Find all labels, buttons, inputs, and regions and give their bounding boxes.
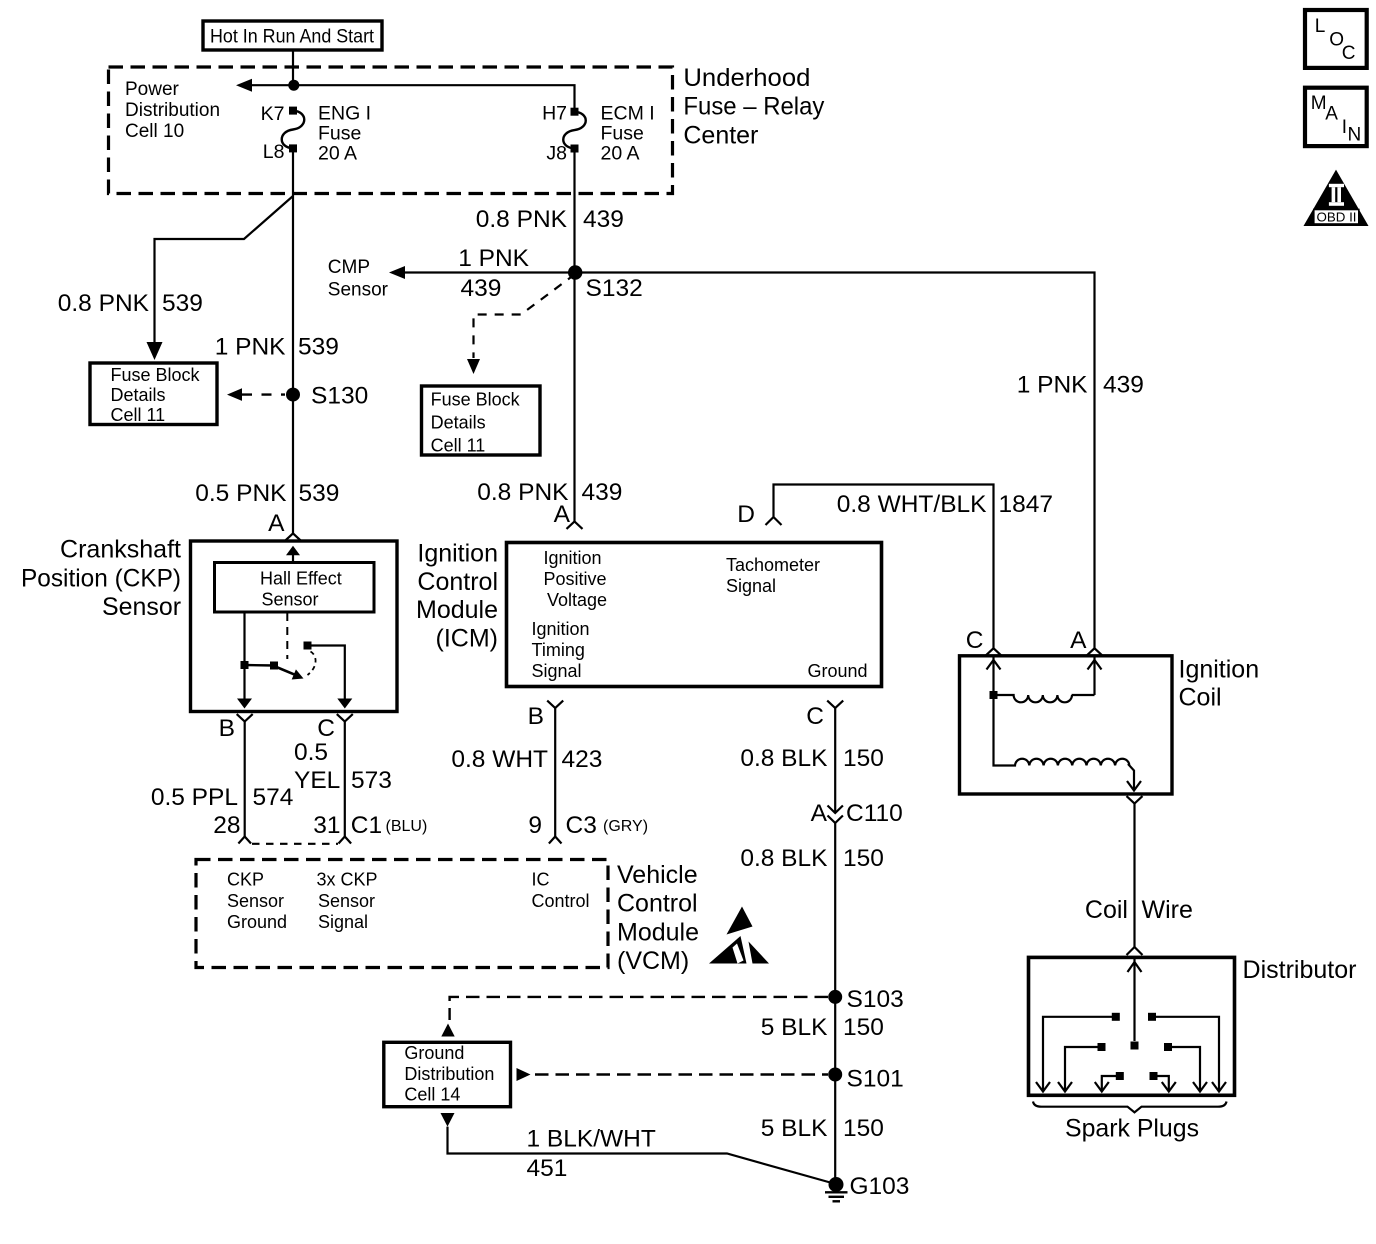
svg-text:574: 574 (253, 784, 294, 811)
wire CKP B to VCM pin 28 (ckt 574) (244, 722, 246, 837)
svg-text:Position (CKP): Position (CKP) (21, 564, 181, 592)
svg-text:0.8 PNK: 0.8 PNK (476, 206, 568, 233)
svg-text:L8: L8 (263, 141, 285, 163)
svg-text:539: 539 (299, 480, 340, 507)
svg-text:(GRY): (GRY) (603, 818, 648, 835)
svg-text:Distributor: Distributor (1243, 956, 1357, 984)
svg-text:573: 573 (351, 767, 392, 794)
label: Crankshaft Position (CKP) Sensor (21, 536, 181, 622)
svg-text:Spark Plugs: Spark Plugs (1065, 1115, 1199, 1143)
svg-text:1 PNK: 1 PNK (1017, 372, 1088, 399)
wire: ECM I fuse down to ICM pin A (ckt 439) (573, 149, 575, 522)
wire label 1 PNK 539 (215, 334, 339, 361)
wire label 0.8 WHT/BLK 1847 (837, 491, 1053, 518)
wire 1 BLK/WHT 451 to G103 (448, 1127, 833, 1183)
svg-text:B: B (528, 703, 544, 730)
wire ICM C ground (ckt 150) upper (834, 708, 836, 813)
wire label 1 BLK/WHT 451 (527, 1126, 656, 1183)
svg-text:C1: C1 (351, 812, 382, 839)
svg-text:Cell 11: Cell 11 (431, 436, 486, 456)
svg-text:Timing: Timing (532, 640, 585, 660)
svg-text:IC: IC (532, 870, 550, 890)
svg-text:Signal: Signal (532, 661, 582, 681)
CKP internal contact square to pin C (304, 642, 312, 650)
fuse ENG I 20A (K7/L8) (289, 107, 297, 115)
svg-text:Cell 11: Cell 11 (111, 405, 166, 425)
ICM pin function: Ignition Positive Voltage (544, 548, 608, 610)
svg-text:Module: Module (416, 596, 498, 624)
svg-text:A: A (554, 501, 571, 528)
svg-text:0.8 BLK: 0.8 BLK (740, 745, 828, 772)
svg-text:Tachometer: Tachometer (726, 555, 820, 575)
svg-text:Ground: Ground (404, 1043, 464, 1063)
svg-text:OBD II: OBD II (1317, 211, 1357, 225)
CKP internal switch contact squares (241, 661, 249, 669)
label CMP Sensor (328, 257, 389, 300)
connector C1 pin 28 terminal (238, 837, 251, 844)
svg-text:20 A: 20 A (601, 143, 640, 165)
svg-text:YEL: YEL (294, 767, 340, 794)
dashed reference Ground Distribution to S101 (517, 1068, 531, 1081)
reference arrow Ground Distribution down (ckt 451) (441, 1113, 455, 1127)
svg-text:Details: Details (431, 413, 486, 433)
svg-text:5 BLK: 5 BLK (761, 1014, 828, 1041)
svg-text:C3: C3 (566, 812, 597, 839)
wire: ENG I fuse down to CKP sensor (ckt 539) (292, 148, 294, 533)
coil secondary winding (994, 695, 1135, 791)
svg-text:31: 31 (313, 812, 340, 839)
svg-text:I: I (1342, 117, 1347, 138)
svg-text:Power: Power (125, 79, 180, 100)
connector label C3 (GRY) (566, 812, 649, 839)
fuse ECM I 20A (H7/J8) (571, 108, 579, 116)
svg-text:5 BLK: 5 BLK (761, 1115, 828, 1142)
coil wire to distributor (1133, 804, 1135, 948)
svg-text:0.8 WHT: 0.8 WHT (451, 746, 548, 773)
svg-text:Details: Details (111, 385, 166, 405)
wire CKP C to VCM pin 31 (ckt 573) (344, 722, 346, 837)
splice S130 (286, 388, 300, 402)
ground G103 (829, 1177, 844, 1192)
svg-text:Underhood: Underhood (683, 64, 810, 92)
svg-text:A: A (1325, 104, 1338, 125)
svg-text:0.8 WHT/BLK: 0.8 WHT/BLK (837, 491, 987, 518)
wire label 5 BLK 150 (lower) (761, 1115, 884, 1142)
svg-text:Crankshaft: Crankshaft (60, 536, 181, 564)
svg-text:S130: S130 (311, 382, 368, 409)
svg-text:(ICM): (ICM) (436, 624, 498, 652)
coil internal: A lead with arrow (1093, 656, 1095, 695)
svg-text:439: 439 (1103, 372, 1144, 399)
svg-text:C: C (966, 627, 984, 654)
wire jumper from junction to ECM I fuse (294, 85, 575, 111)
distributor cap terminal 4 (1164, 1043, 1172, 1051)
LOC reference symbol (1305, 10, 1367, 68)
wire label 0.8 BLK 150 (upper) (740, 745, 884, 772)
svg-text:Ignition: Ignition (417, 540, 498, 568)
wire C110 to G103 (ckt 150) (834, 823, 836, 1185)
svg-text:Wire: Wire (1142, 896, 1193, 924)
svg-text:1847: 1847 (999, 491, 1054, 518)
svg-text:Sensor: Sensor (227, 891, 284, 911)
inline connector C110 pin A (811, 800, 828, 827)
splice S132 (568, 265, 582, 279)
distributor cap terminal 2 (1148, 1013, 1156, 1021)
wire label 0.8 PNK 439 (top) (476, 206, 624, 233)
dashed connector line between pins 28 and 31 (252, 843, 338, 845)
wire arrow to CMP Sensor (402, 271, 575, 273)
wire label 0.5 YEL 573 (294, 739, 392, 794)
distributor rotor feed arrow (1133, 957, 1135, 1041)
ICM pin function: Ignition Timing Signal (532, 619, 590, 681)
svg-text:0.5 PNK: 0.5 PNK (195, 480, 287, 507)
box: Fuse Block Details Cell 11 (right) (422, 386, 541, 455)
svg-text:A: A (1070, 627, 1087, 654)
svg-text:Sensor: Sensor (328, 279, 389, 300)
svg-text:B: B (219, 715, 235, 742)
CKP internal switch blade arrow (274, 666, 296, 675)
dashed box: Underhood Fuse-Relay Center (109, 67, 673, 194)
VCM pin function: 3x CKP Sensor Signal (317, 870, 378, 933)
label box: Hot In Run And Start (203, 21, 382, 50)
svg-text:Fuse Block: Fuse Block (431, 390, 521, 410)
connector C3 pin 9 terminal (549, 837, 562, 844)
connector at distributor cap (1127, 947, 1143, 955)
svg-text:CKP: CKP (227, 870, 264, 890)
arrow to Power Distribution (left) (247, 84, 294, 86)
svg-text:S101: S101 (847, 1066, 904, 1093)
wire from Hot In Run And Start box down to junction (292, 50, 294, 85)
connector label C1 (BLU) (351, 812, 427, 839)
label: Vehicle Control Module (VCM) (617, 861, 699, 975)
svg-text:0.5: 0.5 (294, 739, 328, 766)
svg-text:J8: J8 (546, 143, 567, 165)
wire label 1 PNK 439 (CMP branch) (458, 245, 529, 302)
svg-text:150: 150 (843, 845, 884, 872)
svg-text:Positive: Positive (544, 569, 607, 589)
CKP internal dashed control line (286, 613, 288, 659)
wire label 5 BLK 150 (upper) (761, 1014, 884, 1041)
svg-text:C: C (806, 703, 824, 730)
dashed reference arrow S130 to fuse block details (242, 393, 285, 395)
wire label 0.8 PNK 539 (58, 290, 203, 317)
svg-text:ENG I: ENG I (318, 103, 371, 125)
svg-text:Signal: Signal (318, 912, 368, 932)
svg-text:C110: C110 (846, 800, 903, 827)
svg-text:A: A (268, 510, 285, 537)
svg-text:N: N (1348, 125, 1362, 146)
svg-text:150: 150 (843, 1115, 884, 1142)
svg-text:Control: Control (417, 568, 498, 596)
svg-text:G103: G103 (850, 1173, 910, 1200)
wire label 0.5 PPL 574 (151, 784, 294, 811)
VCM pin function: CKP Sensor Ground (227, 870, 287, 933)
svg-text:Control: Control (532, 891, 590, 911)
svg-text:Ground: Ground (227, 912, 287, 932)
ICM pin function: Tachometer Signal (726, 555, 820, 596)
label: Ignition Coil (1179, 656, 1260, 712)
svg-text:439: 439 (583, 206, 624, 233)
svg-text:1 BLK/WHT: 1 BLK/WHT (527, 1126, 656, 1153)
svg-text:C: C (1342, 43, 1356, 64)
wire S132 to ignition coil A (1 PNK 439) (575, 273, 1094, 649)
svg-text:Fuse: Fuse (601, 123, 644, 145)
svg-text:H7: H7 (542, 103, 567, 125)
svg-text:Signal: Signal (726, 576, 776, 596)
wire label 0.8 PNK 439 (at ICM A) (477, 479, 622, 506)
wire label 0.8 WHT 423 (451, 746, 602, 773)
ESD sensitive device symbol (709, 907, 769, 964)
svg-text:Vehicle: Vehicle (617, 861, 698, 889)
svg-text:A: A (811, 800, 828, 827)
svg-text:150: 150 (843, 1014, 884, 1041)
svg-text:28: 28 (213, 812, 240, 839)
CKP internal: line to pin B (243, 612, 245, 699)
box: Ignition Control Module (ICM) (507, 543, 882, 687)
svg-text:Cell 10: Cell 10 (125, 121, 184, 142)
dashed box: Vehicle Control Module (VCM) (196, 860, 608, 968)
svg-text:439: 439 (582, 479, 623, 506)
svg-text:K7: K7 (261, 103, 285, 125)
svg-text:M: M (1311, 93, 1327, 114)
box: Distributor (1029, 957, 1235, 1095)
wire label 1 PNK 439 (coil feed) (1017, 372, 1144, 399)
wire label 0.8 BLK 150 (lower) (740, 845, 884, 872)
wire ICM D to ignition coil C (ckt 1847) (774, 485, 994, 649)
label: Power Distribution Cell 10 (125, 79, 220, 142)
svg-text:CMP: CMP (328, 257, 370, 278)
box: Ignition Coil (960, 656, 1173, 794)
coil internal: C lead with arrow (992, 656, 994, 691)
svg-text:439: 439 (461, 275, 502, 302)
svg-text:423: 423 (562, 746, 603, 773)
svg-text:Ignition: Ignition (544, 548, 602, 568)
distributor cap terminal 1 (1112, 1013, 1120, 1021)
svg-text:539: 539 (162, 290, 203, 317)
svg-text:Coil: Coil (1179, 684, 1222, 712)
MAIN reference symbol (1305, 88, 1367, 146)
inner box: Hall Effect Sensor (215, 563, 375, 613)
wire ICM B to VCM pin 9 (ckt 423) (554, 708, 556, 837)
svg-text:Hall Effect: Hall Effect (260, 569, 342, 589)
distributor cap terminal 5 (1116, 1072, 1124, 1080)
label: Underhood Fuse - Relay Center (683, 64, 824, 150)
svg-text:S132: S132 (586, 275, 643, 302)
svg-text:0.8 PNK: 0.8 PNK (58, 290, 150, 317)
svg-text:1 PNK: 1 PNK (215, 334, 286, 361)
svg-text:L: L (1315, 16, 1326, 37)
svg-text:Sensor: Sensor (102, 593, 181, 621)
svg-text:Ignition: Ignition (532, 619, 590, 639)
svg-text:0.8 BLK: 0.8 BLK (740, 845, 828, 872)
svg-text:Fuse Block: Fuse Block (111, 365, 201, 385)
splice S103 (828, 990, 842, 1004)
svg-text:9: 9 (528, 812, 542, 839)
svg-text:ECM I: ECM I (601, 103, 655, 125)
connector C110 double chevron (828, 806, 843, 824)
dashed reference S103 to Ground Distribution (450, 997, 828, 1020)
svg-text:(VCM): (VCM) (617, 947, 689, 975)
svg-text:C: C (317, 715, 335, 742)
svg-text:Hot In Run And Start: Hot In Run And Start (210, 27, 375, 48)
svg-text:Distribution: Distribution (125, 100, 220, 121)
distributor cap terminal 3 (1098, 1043, 1106, 1051)
svg-text:150: 150 (843, 745, 884, 772)
distributor cap terminal 6 (1150, 1072, 1158, 1080)
fuse value label ENG I Fuse 20 A (318, 103, 371, 165)
svg-text:Sensor: Sensor (262, 590, 319, 610)
junction dot on feed wire (288, 80, 299, 91)
fuse value label ECM I Fuse 20 A (601, 103, 655, 165)
svg-text:Coil: Coil (1085, 896, 1128, 924)
svg-text:Module: Module (617, 919, 699, 947)
coil primary winding (997, 695, 1095, 702)
svg-text:Center: Center (683, 122, 758, 150)
svg-text:Voltage: Voltage (547, 590, 607, 610)
svg-text:Distribution: Distribution (404, 1064, 494, 1084)
svg-text:Fuse – Relay: Fuse – Relay (683, 93, 824, 121)
brace: spark plugs (1033, 1102, 1227, 1113)
label: Ignition Control Module (ICM) (416, 540, 498, 653)
label Coil Wire (1085, 896, 1193, 924)
OBD II symbol (1304, 170, 1369, 226)
box: Ground Distribution Cell 14 (384, 1042, 511, 1106)
wire label 0.5 PNK 539 (195, 480, 339, 507)
connector at ignition coil secondary output (1127, 796, 1143, 803)
svg-text:539: 539 (298, 334, 339, 361)
svg-text:Fuse: Fuse (318, 123, 361, 145)
svg-text:Cell 14: Cell 14 (404, 1085, 460, 1105)
svg-text:20 A: 20 A (318, 143, 357, 165)
svg-text:3x CKP: 3x CKP (317, 870, 378, 890)
svg-text:Ignition: Ignition (1179, 656, 1260, 684)
svg-text:Control: Control (617, 890, 698, 918)
wire branch to fuse block details (539) (155, 196, 294, 342)
svg-text:Ground: Ground (808, 661, 868, 681)
svg-text:S103: S103 (847, 986, 904, 1013)
svg-text:(BLU): (BLU) (386, 818, 428, 835)
box: Crankshaft Position (CKP) Sensor (191, 541, 398, 712)
arrow up from Hall Effect Sensor to pin A (292, 555, 294, 563)
svg-text:451: 451 (527, 1155, 568, 1182)
svg-text:0.5 PPL: 0.5 PPL (151, 784, 238, 811)
box: Fuse Block Details Cell 11 (left) (90, 363, 217, 425)
svg-text:Sensor: Sensor (318, 891, 375, 911)
distributor rotor contact (1131, 1042, 1139, 1050)
dashed reference: S132 to fuse block details (right) (474, 274, 576, 358)
CKP internal dashed travel arc (308, 652, 316, 676)
VCM pin function: IC Control (532, 870, 590, 912)
connector C1 pin 31 terminal (339, 837, 352, 844)
svg-text:D: D (737, 501, 755, 528)
splice S101 (828, 1068, 842, 1082)
svg-text:1 PNK: 1 PNK (458, 245, 529, 272)
